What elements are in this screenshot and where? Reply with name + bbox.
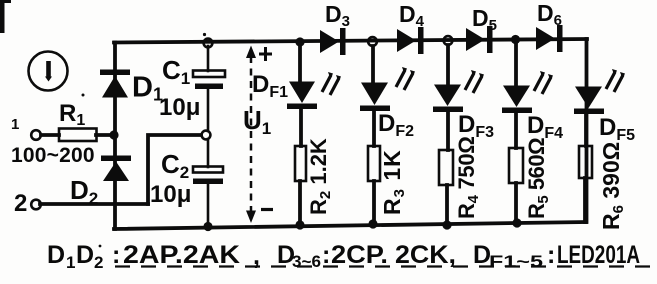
LED DF2: [360, 83, 414, 141]
svg-text:R2 1.2K: R2 1.2K: [306, 138, 334, 215]
resistor R4: [439, 136, 482, 219]
wire R5 to bottom rail: [514, 183, 518, 223]
capacitor C2: [150, 139, 223, 226]
wire R4 to bottom rail: [445, 185, 449, 224]
wire DF3 branch top lead: [446, 45, 450, 84]
node C2 bottom junction: [203, 222, 212, 231]
svg-text:D: D: [47, 241, 65, 269]
LED DF5: [574, 87, 635, 145]
node R3 bottom junction: [368, 219, 377, 228]
resistor R5: [509, 138, 552, 219]
svg-text:D5: D5: [472, 5, 497, 34]
svg-text:C2: C2: [161, 149, 189, 182]
voltage U1 dashed arrow with + and -: [243, 46, 273, 224]
wire top rail: [114, 39, 587, 43]
svg-text:R4 750Ω: R4 750Ω: [454, 136, 482, 219]
DF2 light arrows: [396, 67, 415, 90]
svg-text:LED201A: LED201A: [557, 241, 640, 269]
svg-text::: :: [112, 241, 120, 269]
diode D1: [100, 70, 163, 105]
svg-text:D: D: [76, 241, 94, 269]
wire left branch vertical: [113, 43, 117, 230]
DF4 light arrows: [534, 71, 553, 94]
resistor R2: [295, 138, 334, 215]
svg-text:F1~5: F1~5: [489, 252, 543, 271]
diode D4: [397, 1, 425, 54]
resistor R6: [579, 142, 627, 230]
wire R2 to bottom rail: [298, 181, 302, 225]
node A junction: [109, 130, 118, 139]
svg-text:D4: D4: [399, 1, 425, 30]
svg-text:DF1: DF1: [252, 71, 288, 101]
wire DF4 branch top lead: [514, 40, 518, 85]
wire DF2 branch top lead: [371, 46, 375, 82]
resistor R1: [59, 100, 97, 141]
node R5 bottom junction: [512, 218, 521, 227]
wire DF3 to R4: [446, 112, 450, 150]
svg-text:D2: D2: [70, 175, 98, 208]
terminal 1 label: [11, 116, 19, 133]
svg-text:2AP.2AK: 2AP.2AK: [123, 241, 240, 269]
svg-text:1: 1: [11, 116, 19, 133]
node R4 bottom junction: [442, 220, 451, 229]
figure number mark (circled 1): [29, 52, 68, 91]
node capacitor midpoint junction: [202, 131, 211, 140]
capacitor C1: [159, 46, 225, 131]
caption text: [47, 241, 640, 272]
svg-text:R3 1K: R3 1K: [379, 149, 408, 215]
wire step up to capacitor midpoint: [148, 135, 201, 204]
wire DF1 to R2: [299, 109, 303, 146]
svg-text:DF5: DF5: [599, 114, 635, 144]
wire terminal1 to R1: [41, 133, 59, 137]
svg-text::: :: [322, 241, 330, 269]
node C1 top junction: [204, 39, 213, 48]
diode D5: [466, 5, 497, 53]
node DF1 top junction: [295, 37, 304, 46]
node R2 bottom junction: [295, 220, 304, 229]
node DF3 top junction: [444, 36, 453, 45]
svg-text:D3: D3: [325, 1, 350, 30]
svg-text:2: 2: [14, 190, 27, 217]
wire right edge: [585, 39, 589, 222]
diode D2: [70, 156, 131, 209]
terminal 2 circle: [31, 200, 41, 210]
svg-text::: :: [547, 241, 555, 269]
svg-text:2CP.: 2CP.: [331, 241, 388, 269]
resistor R3: [368, 146, 408, 215]
LED DF4: [502, 86, 563, 143]
svg-text:1: 1: [66, 253, 75, 272]
svg-text:DF2: DF2: [378, 110, 414, 140]
svg-text:R1: R1: [59, 100, 85, 129]
wire R3 to bottom rail: [372, 181, 376, 224]
wire terminal 2 to step corner: [40, 202, 148, 206]
terminal 2 label: [14, 190, 27, 217]
node DF2 top junction: [368, 37, 377, 46]
svg-text:D6: D6: [537, 0, 562, 29]
svg-text:10μ: 10μ: [150, 181, 191, 208]
svg-text:3~6: 3~6: [292, 252, 321, 271]
svg-text:10μ: 10μ: [159, 94, 200, 121]
R1 value 100~200: [11, 144, 95, 167]
svg-text:100~200: 100~200: [11, 144, 95, 167]
svg-text:U1: U1: [243, 105, 271, 138]
DF5 light arrows: [606, 69, 625, 92]
wire R1 to node A: [96, 133, 114, 137]
LED DF1: [252, 71, 317, 109]
DF3 light arrows: [465, 70, 484, 93]
terminal 1 circle: [31, 130, 41, 140]
svg-text:C1: C1: [162, 55, 190, 88]
node DF4 top junction: [511, 35, 520, 44]
diode D6: [536, 0, 563, 52]
wire bottom rail: [114, 222, 586, 229]
svg-text:2CK,: 2CK,: [395, 241, 456, 269]
svg-text:DF4: DF4: [527, 112, 563, 142]
LED DF3: [433, 85, 494, 142]
diode D3: [320, 1, 350, 55]
wire R6 to bottom rail: [583, 178, 587, 222]
svg-text:R6 390Ω: R6 390Ω: [598, 142, 627, 230]
DF1 light arrows: [322, 72, 341, 95]
svg-text:2: 2: [94, 253, 103, 272]
wire DF2 to R3: [372, 111, 376, 146]
wire DF5 to R6: [584, 114, 588, 146]
wire DF1 branch top lead: [298, 42, 302, 81]
wire DF4 to R5: [514, 113, 518, 148]
svg-text:R5 560Ω: R5 560Ω: [524, 138, 552, 219]
